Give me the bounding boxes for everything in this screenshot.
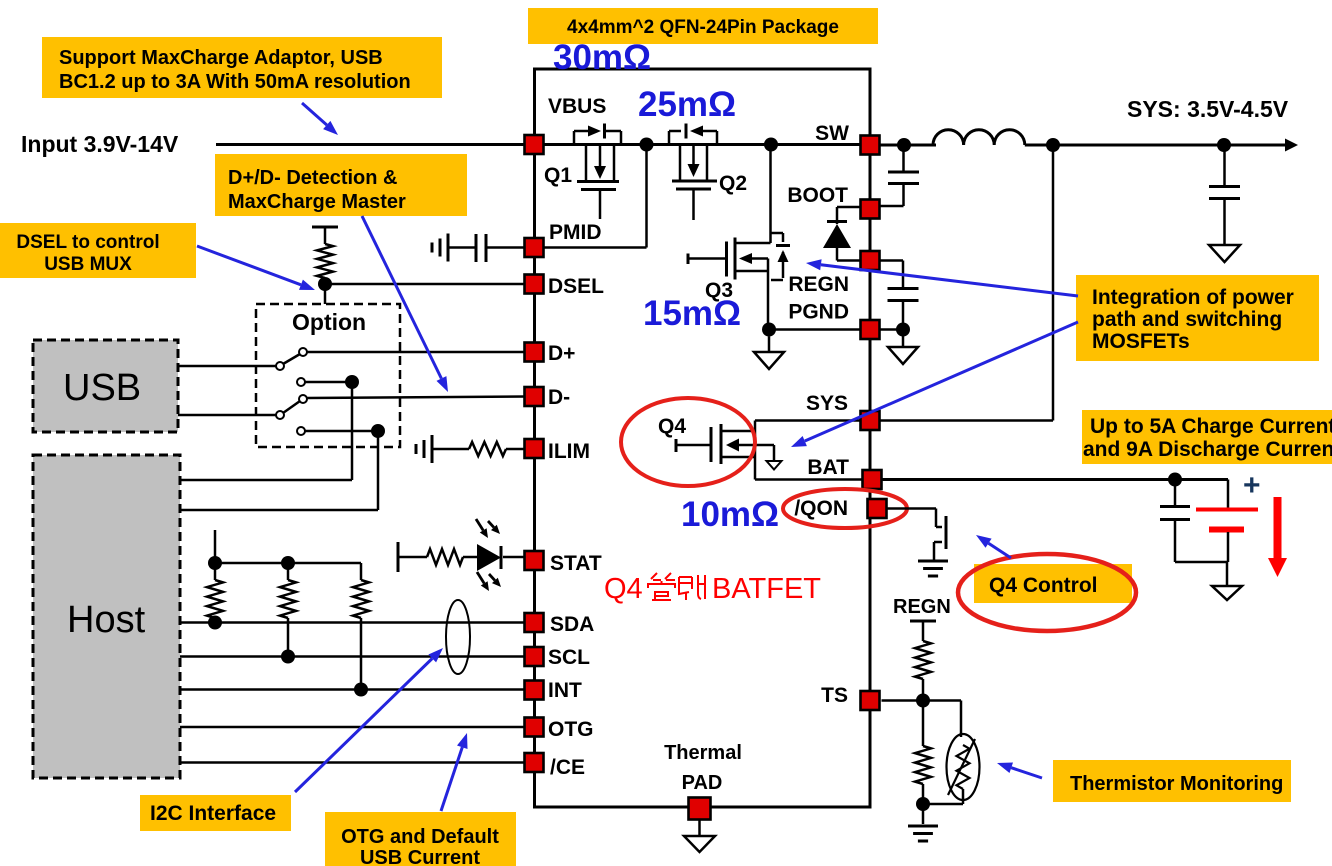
node PMID junction bbox=[640, 138, 654, 152]
capacitor PMID decoupling bbox=[448, 234, 524, 262]
LED light arrows bbox=[476, 519, 501, 591]
wire D- bbox=[306, 397, 526, 399]
svg-text:REGN: REGN bbox=[788, 273, 849, 296]
node output cap bbox=[1217, 138, 1231, 152]
svg-text:30mΩ: 30mΩ bbox=[553, 38, 651, 77]
svg-text:Thermistor Monitoring: Thermistor Monitoring bbox=[1070, 773, 1283, 795]
svg-text:D+/D- Detection &: D+/D- Detection & bbox=[228, 167, 397, 189]
annotation red ellipse around Q4 bbox=[621, 398, 755, 486]
pin SW bbox=[861, 136, 880, 155]
wire SYS to Q4 bbox=[755, 419, 861, 422]
callout box OTG bbox=[325, 812, 516, 866]
svg-text:Input 3.9V-14V: Input 3.9V-14V bbox=[21, 131, 179, 157]
wire BAT left bbox=[755, 478, 862, 481]
capacitor REGN bbox=[880, 261, 904, 289]
svg-text:PAD: PAD bbox=[682, 772, 723, 794]
wire SCL bbox=[180, 655, 526, 658]
pin /CE bbox=[525, 753, 544, 772]
annotation red ellipse around Q4 control bbox=[958, 554, 1136, 631]
wire option vertical 1 to host bbox=[351, 382, 354, 480]
svg-text:Thermal: Thermal bbox=[664, 742, 742, 764]
wire BAT to battery bbox=[882, 478, 1228, 481]
pin PMID bbox=[525, 238, 544, 257]
annotation red ellipse around /QON bbox=[783, 489, 907, 528]
switch S1 (D+ mux) bbox=[276, 348, 307, 370]
wire SW to inductor bbox=[880, 144, 937, 147]
pin BOOT bbox=[861, 200, 880, 219]
transistor Q1 (input RBFET) bbox=[574, 124, 621, 220]
ground Q3 source bbox=[768, 337, 771, 353]
svg-text:TS: TS bbox=[821, 684, 848, 707]
svg-text:REGN: REGN bbox=[893, 596, 951, 618]
pin REGN bbox=[861, 251, 880, 270]
wire VBUS internal rail Q1-Q2 to SW bbox=[543, 143, 861, 146]
transistor Q2 (input RBFET 2) bbox=[669, 124, 717, 221]
svg-text:/CE: /CE bbox=[550, 756, 585, 779]
switch S2 (D- mux) bbox=[276, 395, 307, 419]
callout box I2C interface bbox=[140, 795, 291, 831]
svg-text:Integration of power: Integration of power bbox=[1092, 286, 1294, 309]
svg-text:STAT: STAT bbox=[550, 552, 602, 575]
svg-text:BAT: BAT bbox=[807, 456, 849, 479]
node DSEL junction bbox=[318, 277, 332, 291]
transistor Q3 (LSFET) bbox=[688, 145, 790, 331]
switch S1 alternate throw bbox=[297, 378, 352, 386]
resistor R1 (SDA pull-up) bbox=[214, 563, 217, 580]
discharge current red arrow bbox=[1268, 497, 1287, 577]
wire host line 1 bbox=[180, 479, 352, 482]
capacitor SYS output bbox=[1223, 145, 1226, 186]
resistor R2 (SCL pull-up) bbox=[287, 563, 290, 580]
wire option vertical 2 to host bbox=[377, 431, 380, 510]
thermistor NTC bbox=[947, 701, 980, 801]
pin Thermal PAD bbox=[689, 798, 711, 820]
pin OTG bbox=[525, 718, 544, 737]
resistor DSEL pull-up bbox=[312, 227, 338, 244]
svg-text:ILIM: ILIM bbox=[548, 440, 590, 463]
arrow Q4 control to button bbox=[976, 535, 1011, 558]
ground REGN cap bbox=[902, 330, 905, 348]
svg-text:DSEL: DSEL bbox=[548, 275, 604, 298]
svg-text:and 9A Discharge Current: and 9A Discharge Current bbox=[1083, 438, 1332, 461]
svg-text:USB: USB bbox=[63, 367, 141, 409]
svg-text:USB MUX: USB MUX bbox=[44, 254, 132, 275]
callout box Q4 control bbox=[974, 564, 1132, 603]
pin SDA bbox=[525, 613, 544, 632]
node BAT cap branch bbox=[1168, 473, 1182, 487]
pushbutton QON bbox=[934, 516, 946, 561]
pin INT bbox=[525, 681, 544, 700]
wire /QON to button bbox=[887, 509, 943, 528]
wire Q4 vertical SYS-BAT bbox=[754, 421, 757, 480]
wire input to VBUS bbox=[216, 143, 526, 146]
resistor STAT series bbox=[427, 549, 463, 565]
wire host line 2 bbox=[180, 509, 378, 512]
arrow maxcharge to input wire bbox=[302, 103, 338, 135]
svg-text:SYS: 3.5V-4.5V: SYS: 3.5V-4.5V bbox=[1127, 96, 1289, 122]
svg-text:SCL: SCL bbox=[548, 646, 590, 669]
svg-text:BOOT: BOOT bbox=[787, 184, 848, 207]
svg-text:DSEL to control: DSEL to control bbox=[16, 232, 159, 253]
resistor R3 (INT pull-up) bbox=[360, 563, 363, 580]
LED STAT bbox=[463, 544, 526, 571]
inductor L1 bbox=[933, 130, 1025, 145]
wire PGND left bbox=[769, 328, 861, 331]
pin SCL bbox=[525, 647, 544, 666]
wire OTG bbox=[180, 726, 526, 729]
wire /CE bbox=[180, 761, 526, 764]
svg-text:Q2: Q2 bbox=[719, 172, 747, 195]
svg-text:Q4: Q4 bbox=[658, 415, 686, 438]
ground TS divider bbox=[922, 804, 925, 824]
node rail-R1 bbox=[208, 556, 222, 570]
svg-text:15mΩ: 15mΩ bbox=[643, 294, 741, 333]
wire pull-up rail bbox=[215, 562, 361, 565]
svg-text:SYS: SYS bbox=[806, 392, 848, 415]
svg-text:SDA: SDA bbox=[550, 613, 594, 636]
pin TS bbox=[861, 691, 880, 710]
ground ILIM bbox=[416, 435, 432, 463]
block USB connector bbox=[33, 340, 178, 432]
node L-SYS branch bbox=[1046, 138, 1060, 152]
ground Thermal PAD bbox=[698, 820, 701, 837]
transistor Q4 (BATFET) bbox=[676, 424, 774, 464]
pin BAT bbox=[863, 470, 882, 489]
wire PGND right bbox=[880, 328, 904, 331]
wire USB to S2 bbox=[178, 414, 277, 417]
svg-text:D-: D- bbox=[548, 386, 570, 409]
node Q3 source / PGND bbox=[762, 323, 776, 337]
wire DSEL bbox=[325, 278, 526, 284]
SYS output arrowhead bbox=[1285, 139, 1298, 152]
pin D- bbox=[525, 387, 544, 406]
svg-text:MOSFETs: MOSFETs bbox=[1092, 330, 1190, 353]
svg-text:BATFET: BATFET bbox=[712, 573, 821, 605]
callout box D+/D- detection bbox=[215, 154, 467, 216]
svg-text:Q4 Control: Q4 Control bbox=[989, 574, 1098, 597]
node TS bottom junction bbox=[916, 797, 930, 811]
svg-text:Host: Host bbox=[67, 599, 146, 641]
wire SYS pin to branch bbox=[880, 419, 1054, 422]
wire PMID to Q1/Q2 node bbox=[543, 145, 647, 248]
ground QON button bbox=[918, 561, 948, 576]
wire TS pin to divider bbox=[882, 699, 962, 702]
capacitor bootstrap bbox=[902, 145, 905, 171]
annotation text Q4 BATFET (red) bbox=[604, 573, 821, 605]
svg-text:I2C Interface: I2C Interface bbox=[150, 802, 276, 825]
callout box integration mosfets bbox=[1076, 275, 1319, 361]
svg-text:/QON: /QON bbox=[794, 497, 848, 520]
ground battery bbox=[1226, 562, 1229, 586]
option block (dashed) bbox=[256, 304, 400, 447]
arrow D+/D- detection to D- wire bbox=[362, 216, 448, 392]
svg-text:USB Current: USB Current bbox=[360, 847, 480, 866]
ground PMID cap bbox=[432, 234, 448, 262]
svg-text:D+: D+ bbox=[548, 342, 575, 365]
svg-text:SW: SW bbox=[815, 122, 849, 145]
pin /QON bbox=[868, 499, 887, 518]
svg-text:10mΩ: 10mΩ bbox=[681, 495, 779, 534]
wire pull-up supply stub bbox=[214, 530, 217, 563]
arrow integration to Q4 bbox=[791, 322, 1078, 447]
svg-text:Support MaxCharge Adaptor, USB: Support MaxCharge Adaptor, USB bbox=[59, 47, 383, 69]
pin DSEL bbox=[525, 275, 544, 294]
ground Q4 body arrow bbox=[767, 461, 782, 470]
node R3-INT bbox=[354, 683, 368, 697]
pin D+ bbox=[525, 343, 544, 362]
svg-text:INT: INT bbox=[548, 679, 582, 702]
IC U1 body (QFN-24 charger IC) bbox=[535, 69, 871, 807]
svg-text:path and switching: path and switching bbox=[1092, 308, 1282, 331]
wire SYS feedback vertical bbox=[1052, 145, 1055, 421]
arrow integration to REGN fet bbox=[806, 259, 1078, 296]
wire D+ bbox=[306, 351, 526, 354]
node S2 throw junction bbox=[371, 424, 385, 438]
svg-text:Q1: Q1 bbox=[544, 164, 572, 187]
pin PGND bbox=[861, 320, 880, 339]
callout box charge current bbox=[1082, 410, 1332, 464]
switch S2 alternate throw bbox=[297, 427, 378, 435]
svg-text:PMID: PMID bbox=[549, 221, 602, 244]
wire DSEL to option box bbox=[324, 284, 327, 304]
pin SYS bbox=[861, 411, 880, 430]
label Thermal PAD bbox=[664, 742, 742, 794]
node S1 throw junction bbox=[345, 375, 359, 389]
node Q2-SW / Q3 drain junction bbox=[764, 138, 778, 152]
block Host processor bbox=[33, 455, 180, 778]
callout box DSEL bbox=[0, 223, 196, 278]
arrow I2C interface to bus bbox=[295, 648, 443, 792]
svg-text:PGND: PGND bbox=[788, 301, 849, 324]
arrow thermistor monitoring bbox=[997, 763, 1042, 779]
svg-text:Q4: Q4 bbox=[604, 573, 643, 605]
resistor TS upper (REGN pull-up) bbox=[910, 621, 936, 641]
node REGN cap - PGND bbox=[896, 323, 910, 337]
svg-text:VBUS: VBUS bbox=[548, 95, 606, 118]
svg-text:Up to 5A Charge Current: Up to 5A Charge Current bbox=[1090, 415, 1332, 438]
wire inductor to SYS output bbox=[1025, 144, 1288, 147]
svg-text:MaxCharge Master: MaxCharge Master bbox=[228, 191, 406, 213]
diode BOOT bootstrap bbox=[823, 207, 861, 261]
resistor TS lower bbox=[922, 701, 925, 747]
ground SYS output cap bbox=[1209, 245, 1240, 262]
resistor ILIM bbox=[433, 448, 469, 451]
svg-text:OTG: OTG bbox=[548, 718, 594, 741]
node R1-SDA bbox=[208, 616, 222, 630]
svg-text:OTG and Default: OTG and Default bbox=[341, 826, 499, 848]
battery cell BT1 bbox=[1196, 480, 1258, 563]
svg-text:25mΩ: 25mΩ bbox=[638, 85, 736, 124]
callout box thermistor monitoring bbox=[1053, 760, 1291, 802]
pin ILIM bbox=[525, 439, 544, 458]
svg-text:+: + bbox=[1243, 469, 1261, 502]
node SW-bootcap bbox=[897, 138, 911, 152]
arrow DSEL to node bbox=[197, 246, 315, 290]
wire SDA bbox=[180, 621, 526, 624]
svg-text:Option: Option bbox=[292, 309, 366, 335]
wire INT bbox=[180, 688, 526, 691]
I2C bus ellipse marker bbox=[446, 600, 470, 674]
pin VBUS bbox=[525, 135, 544, 154]
wire ILIM to pin bbox=[506, 448, 524, 451]
svg-text:BC1.2 up to 3A With 50mA reso: BC1.2 up to 3A With 50mA resolution bbox=[59, 71, 411, 93]
capacitor battery bypass bbox=[1174, 480, 1177, 507]
pin STAT bbox=[525, 551, 544, 570]
svg-text:4x4mm^2 QFN-24Pin Package: 4x4mm^2 QFN-24Pin Package bbox=[567, 17, 839, 38]
arrow OTG to wire bbox=[441, 733, 468, 811]
wire USB to S1 bbox=[178, 365, 277, 368]
callout box support maxcharge bbox=[42, 37, 442, 98]
node rail-R2 bbox=[281, 556, 295, 570]
node R2-SCL bbox=[281, 650, 295, 664]
callout box package bbox=[528, 8, 878, 44]
node TS junction bbox=[916, 694, 930, 708]
wire STAT supply bar bbox=[398, 542, 427, 572]
